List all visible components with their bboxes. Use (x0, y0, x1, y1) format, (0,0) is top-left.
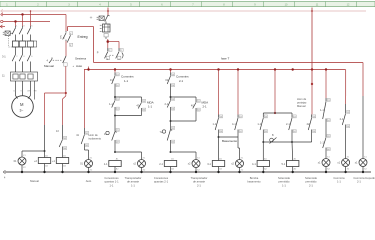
svg-text:2-1: 2-1 (197, 183, 201, 187)
svg-text:1-1: 1-1 (148, 105, 152, 109)
svg-text:quantas 1-1: quantas 1-1 (104, 180, 119, 184)
svg-text:permitido: permitido (278, 180, 290, 184)
svg-text:X1: X1 (90, 158, 93, 160)
svg-text:X1: X1 (327, 157, 330, 159)
svg-text:Manual: Manual (297, 104, 306, 108)
svg-text:A2: A2 (63, 165, 66, 168)
svg-text:A1: A1 (45, 154, 48, 157)
svg-text:de arraste: de arraste (127, 180, 140, 184)
svg-text:2-1: 2-1 (286, 122, 290, 126)
svg-text:x1: x1 (355, 161, 358, 165)
svg-text:Conexiones: Conexiones (154, 176, 169, 180)
svg-text:quantas 2-1: quantas 2-1 (154, 180, 169, 184)
svg-text:A1: A1 (171, 157, 174, 160)
svg-text:4: 4 (23, 56, 25, 58)
svg-text:M: M (20, 102, 24, 107)
svg-text:1-1: 1-1 (257, 122, 261, 126)
svg-text:Manual: Manual (30, 179, 39, 183)
svg-text:+2: +2 (34, 159, 38, 163)
svg-text:Solenoide: Solenoide (305, 176, 317, 180)
svg-text:1-1: 1-1 (124, 79, 128, 83)
svg-text:isolamento: isolamento (89, 137, 102, 141)
svg-text:Inoperância: Inoperância (365, 176, 375, 180)
svg-text:Sestena: Sestena (75, 57, 86, 61)
svg-text:A1: A1 (116, 157, 119, 160)
svg-text:x2: x2 (133, 162, 136, 166)
svg-text:4-1: 4-1 (232, 122, 236, 126)
svg-text:11: 11 (2, 74, 5, 78)
svg-text:A1: A1 (264, 157, 267, 160)
svg-text:B: B (272, 134, 274, 137)
svg-text:2: 2 (60, 35, 62, 38)
svg-text:Transportador: Transportador (125, 176, 142, 180)
svg-text:2-1: 2-1 (357, 180, 361, 184)
svg-text:x2: x2 (231, 162, 234, 166)
svg-text:1-1: 1-1 (320, 141, 324, 145)
svg-text:Basamento: Basamento (222, 139, 238, 143)
svg-text:X1: X1 (143, 158, 146, 160)
svg-text:X2: X2 (23, 167, 26, 169)
svg-text:Auto: Auto (86, 179, 92, 183)
svg-text:permitido: permitido (305, 180, 317, 184)
svg-text:3-1: 3-1 (2, 55, 6, 59)
svg-text:1: 1 (16, 25, 18, 27)
svg-text:X1: X1 (241, 158, 244, 160)
svg-text:1-1: 1-1 (110, 183, 114, 187)
svg-text:3~: 3~ (20, 109, 24, 113)
svg-text:1-1: 1-1 (104, 162, 108, 166)
svg-text:X2: X2 (143, 170, 146, 172)
svg-text:A2: A2 (294, 168, 297, 171)
svg-text:x1: x1 (318, 161, 321, 165)
svg-text:5-1: 5-1 (281, 162, 285, 166)
svg-text:Horn de: Horn de (89, 133, 99, 137)
svg-text:Cummins: Cummins (353, 176, 365, 180)
svg-text:6: 6 (31, 56, 33, 58)
svg-text:X2: X2 (241, 170, 244, 172)
svg-text:5: 5 (31, 25, 33, 27)
svg-text:A1: A1 (219, 157, 222, 160)
svg-text:2-1: 2-1 (165, 102, 169, 106)
svg-text:Solenoide: Solenoide (278, 176, 290, 180)
svg-text:basamento: basamento (247, 180, 261, 184)
svg-text:X1: X1 (197, 158, 200, 160)
svg-text:4: 4 (47, 59, 49, 63)
svg-text:X1: X1 (347, 157, 350, 159)
svg-text:P: P (97, 51, 99, 55)
svg-text:4: 4 (4, 177, 6, 180)
svg-text:Cummins: Cummins (333, 176, 345, 180)
svg-text:A2: A2 (264, 168, 267, 171)
svg-text:A2: A2 (171, 168, 174, 171)
svg-text:43: 43 (56, 130, 59, 133)
svg-text:1-1: 1-1 (282, 183, 286, 187)
svg-text:A2: A2 (45, 165, 48, 168)
svg-text:X1: X1 (23, 155, 26, 157)
svg-text:2-1: 2-1 (340, 117, 344, 121)
svg-text:Auto: Auto (76, 64, 83, 68)
svg-text:Transportador: Transportador (191, 176, 208, 180)
svg-text:1-1: 1-1 (131, 183, 135, 187)
svg-text:U1: U1 (13, 91, 17, 93)
svg-text:2-1: 2-1 (179, 79, 183, 83)
svg-text:A2: A2 (116, 168, 119, 171)
svg-text:X2: X2 (327, 169, 330, 171)
svg-text:Bomba: Bomba (250, 176, 259, 180)
svg-text:X2: X2 (364, 169, 367, 171)
svg-text:x2: x2 (188, 162, 191, 166)
svg-text:3-1: 3-1 (207, 162, 211, 166)
svg-text:2-1: 2-1 (309, 183, 313, 187)
svg-text:Manual: Manual (44, 64, 54, 68)
svg-text:V1: V1 (20, 91, 23, 93)
svg-text:41: 41 (76, 133, 79, 137)
svg-text:2-1: 2-1 (159, 162, 163, 166)
svg-text:1-1: 1-1 (337, 180, 341, 184)
svg-text:x1: x1 (337, 161, 340, 165)
svg-text:1-1: 1-1 (320, 108, 324, 112)
svg-text:01: 01 (80, 162, 83, 166)
svg-text:A1: A1 (294, 157, 297, 160)
svg-text:fase T: fase T (221, 56, 229, 60)
svg-text:X2: X2 (347, 169, 350, 171)
svg-text:3: 3 (23, 25, 25, 27)
svg-text:protejao: protejao (297, 101, 307, 105)
svg-text:01: 01 (14, 159, 17, 163)
svg-text:A2: A2 (219, 168, 222, 171)
svg-text:Conexiones: Conexiones (104, 176, 119, 180)
svg-text:X2: X2 (90, 170, 93, 172)
svg-text:1-1: 1-1 (213, 122, 217, 126)
svg-text:X1: X1 (364, 157, 367, 159)
svg-text:A1: A1 (63, 154, 66, 157)
svg-text:4-1: 4-1 (252, 162, 256, 166)
svg-text:Horn de: Horn de (297, 97, 307, 101)
svg-text:2-1: 2-1 (203, 105, 207, 109)
svg-text:de arraste: de arraste (193, 180, 206, 184)
svg-text:+1: +1 (52, 159, 56, 163)
svg-text:X2: X2 (197, 170, 200, 172)
svg-text:2: 2 (16, 56, 18, 58)
svg-text:Entreg: Entreg (78, 35, 88, 39)
svg-text:+: + (73, 64, 75, 68)
svg-text:1-1: 1-1 (109, 102, 113, 106)
